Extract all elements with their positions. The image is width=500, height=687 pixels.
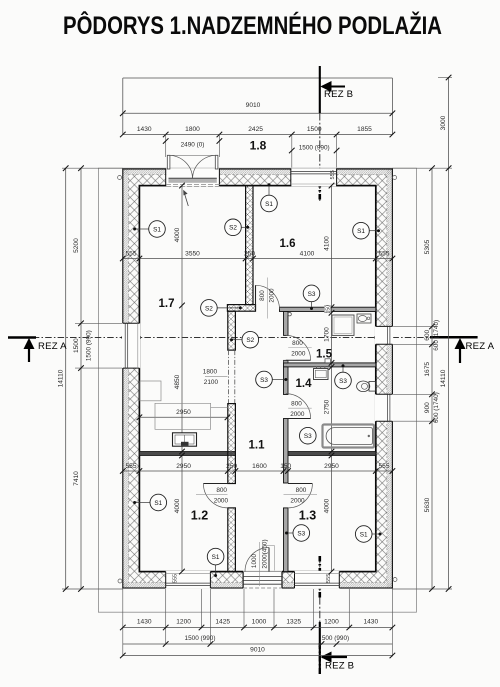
svg-text:555: 555 xyxy=(378,463,389,470)
svg-text:250: 250 xyxy=(226,463,237,470)
svg-text:5200: 5200 xyxy=(73,238,80,253)
small box above 1.5/1.4 wall xyxy=(325,359,330,363)
svg-text:S1: S1 xyxy=(153,226,161,233)
double door leaves + arcs xyxy=(167,155,170,169)
svg-text:S2: S2 xyxy=(205,305,213,312)
svg-text:S3: S3 xyxy=(297,530,305,537)
svg-text:S1: S1 xyxy=(360,531,368,538)
door to 1.4 xyxy=(286,394,312,419)
1800/2100 opening shown dash-dot xyxy=(227,350,229,404)
svg-text:4100: 4100 xyxy=(300,250,315,257)
svg-text:2750: 2750 xyxy=(323,399,330,414)
svg-text:S1: S1 xyxy=(154,500,162,507)
door 1.6 (800/2000) xyxy=(255,285,257,309)
door to 1.5 xyxy=(286,335,312,360)
hinge circle 1.5 door xyxy=(288,313,291,316)
partition 1.7/1.6 (250 thick) xyxy=(227,186,255,312)
svg-text:555: 555 xyxy=(125,463,136,470)
svg-text:1500 (990): 1500 (990) xyxy=(86,330,93,361)
svg-text:3550: 3550 xyxy=(185,250,200,257)
svg-text:555: 555 xyxy=(173,574,179,583)
svg-text:7410: 7410 xyxy=(73,471,80,486)
svg-text:REZ A: REZ A xyxy=(466,341,495,352)
S3 room 1.3 xyxy=(287,532,294,534)
overall line xyxy=(448,78,450,590)
washbasin 1.4 xyxy=(314,367,329,380)
threshold gray sill xyxy=(169,178,217,183)
svg-text:1.1: 1.1 xyxy=(249,440,266,452)
svg-text:2100: 2100 xyxy=(204,379,219,386)
svg-text:4000: 4000 xyxy=(323,498,330,513)
svg-text:REZ A: REZ A xyxy=(38,341,67,352)
svg-text:1.5: 1.5 xyxy=(316,349,333,361)
horizontal chain y=471 xyxy=(120,463,395,474)
svg-text:2950: 2950 xyxy=(176,409,191,416)
svg-text:1855: 1855 xyxy=(357,126,372,133)
svg-text:1.2: 1.2 xyxy=(191,509,208,523)
S1 room 1.6 right xyxy=(369,230,378,232)
S3 room 1.4 xyxy=(342,366,344,373)
svg-text:150: 150 xyxy=(325,305,331,314)
horizontal chain y=258.5 xyxy=(120,250,395,261)
svg-text:S2: S2 xyxy=(246,337,254,344)
svg-text:1700: 1700 xyxy=(323,327,330,342)
bottom window right (1500) xyxy=(295,571,340,589)
svg-text:1.6: 1.6 xyxy=(280,238,296,250)
sub labels: door 2490(0), window 1500(990) xyxy=(163,135,340,168)
bathtub xyxy=(323,425,375,448)
kitchen width 2950 xyxy=(137,409,231,420)
right window 600 xyxy=(375,326,393,344)
svg-text:555: 555 xyxy=(326,574,332,583)
corridor right wall (150) with door openings xyxy=(284,312,289,572)
svg-text:1425: 1425 xyxy=(215,619,230,626)
corridor left wall (250) with opening 1800 and door xyxy=(203,311,236,571)
S2 hall xyxy=(232,339,243,341)
svg-text:1430: 1430 xyxy=(137,126,152,133)
svg-text:S1: S1 xyxy=(265,201,273,208)
svg-text:4000: 4000 xyxy=(174,227,181,242)
kitchen cabinets xyxy=(140,381,228,429)
opening label xyxy=(205,375,228,377)
kitchen south wall xyxy=(139,452,235,456)
washing machine 1.5 xyxy=(332,315,354,335)
small basin 1.5 xyxy=(357,314,371,323)
tiny 150 wall labels xyxy=(324,306,330,313)
svg-text:5305: 5305 xyxy=(424,239,431,254)
stair door xyxy=(245,539,275,586)
svg-text:REZ B: REZ B xyxy=(324,89,353,100)
svg-text:4850: 4850 xyxy=(174,374,181,389)
WC 1.4 xyxy=(357,381,376,392)
REZ B marker top xyxy=(320,81,353,100)
S1 room 1.6 left xyxy=(268,185,270,195)
svg-text:2000: 2000 xyxy=(269,288,276,303)
downspout circles at corners xyxy=(118,176,122,180)
svg-text:2000: 2000 xyxy=(290,411,305,418)
stair steps xyxy=(243,576,282,578)
vertical chain x=182 xyxy=(174,183,185,575)
dashed separation line xyxy=(128,175,387,583)
door to 1.3 xyxy=(284,484,318,508)
REZ B marker bottom xyxy=(320,652,354,672)
wall inner border xyxy=(139,186,375,572)
bottom window left (1500) xyxy=(166,571,211,589)
top window (1500) xyxy=(291,168,337,186)
svg-text:5630: 5630 xyxy=(424,497,431,512)
wall 1.5/1.4 (150 thick) xyxy=(284,363,376,367)
svg-text:600 (1740): 600 (1740) xyxy=(433,392,440,423)
svg-text:2000(450): 2000(450) xyxy=(261,539,268,568)
REZ A marker right xyxy=(455,338,495,363)
svg-text:2000: 2000 xyxy=(290,498,305,505)
svg-text:S2: S2 xyxy=(229,225,237,232)
svg-text:900: 900 xyxy=(424,402,431,413)
overall 14110 line xyxy=(65,168,67,589)
top guide box xyxy=(123,78,393,135)
svg-text:2950: 2950 xyxy=(176,463,191,470)
svg-text:1325: 1325 xyxy=(286,619,301,626)
svg-text:2000: 2000 xyxy=(291,350,306,357)
segment line 5200/1500/7410 xyxy=(80,168,82,589)
svg-text:14110: 14110 xyxy=(58,369,65,387)
svg-text:PÔDORYS 1.NADZEMNÉHO PODLAŽIA: PÔDORYS 1.NADZEMNÉHO PODLAŽIA xyxy=(63,10,442,40)
dim row segments top xyxy=(120,126,395,137)
svg-text:600: 600 xyxy=(424,329,431,340)
svg-text:14110: 14110 xyxy=(440,369,447,387)
svg-text:800: 800 xyxy=(216,487,227,494)
svg-text:1.7: 1.7 xyxy=(159,298,175,310)
vertical chain x=331.5 xyxy=(323,183,334,575)
svg-text:3000: 3000 xyxy=(440,115,447,130)
segments line xyxy=(431,168,433,589)
S2 room 1.7 right xyxy=(241,226,247,228)
svg-text:1800: 1800 xyxy=(203,369,218,376)
svg-text:1600: 1600 xyxy=(252,463,267,470)
svg-text:4000: 4000 xyxy=(174,498,181,513)
S3 room 1.6 bottom xyxy=(311,302,313,309)
south wall of 1.6 (150 thick) with door opening xyxy=(256,278,376,319)
svg-text:1.8: 1.8 xyxy=(250,139,267,153)
svg-text:800: 800 xyxy=(292,340,303,347)
svg-text:1500 (990): 1500 (990) xyxy=(185,635,216,642)
REZ A marker left xyxy=(24,338,68,362)
REZ A section line (horizontal) xyxy=(8,336,478,338)
svg-text:800: 800 xyxy=(259,290,266,301)
row 1 xyxy=(123,627,393,629)
svg-text:S3: S3 xyxy=(308,291,316,298)
svg-text:1500: 1500 xyxy=(73,338,80,353)
S2 top of hall xyxy=(217,307,240,309)
svg-text:250: 250 xyxy=(244,250,255,257)
stair opening in bottom wall xyxy=(243,571,282,589)
outer insulation band (fine hatch) xyxy=(123,169,393,588)
entry arrow xyxy=(184,193,188,206)
svg-text:1800: 1800 xyxy=(185,126,200,133)
svg-text:S3: S3 xyxy=(304,433,312,440)
masonry band (crosshatch) xyxy=(128,175,387,583)
svg-text:555: 555 xyxy=(378,250,389,257)
door to 1.2 xyxy=(196,484,228,508)
svg-text:1430: 1430 xyxy=(363,619,378,626)
svg-text:2425: 2425 xyxy=(248,126,263,133)
L stub at its foot xyxy=(227,305,255,312)
svg-text:1200: 1200 xyxy=(176,619,191,626)
svg-text:500 (990): 500 (990) xyxy=(322,635,349,642)
dim line 9010 (top) xyxy=(120,102,395,116)
svg-text:150: 150 xyxy=(280,463,291,470)
S3 room 1.4 lower xyxy=(300,427,317,444)
svg-text:S1: S1 xyxy=(212,554,220,561)
svg-text:REZ B: REZ B xyxy=(325,660,354,671)
bath block south wall xyxy=(288,452,376,456)
kitchen sink xyxy=(173,433,197,446)
svg-text:1000: 1000 xyxy=(252,619,267,626)
left window (1500) xyxy=(122,323,140,368)
svg-text:9010: 9010 xyxy=(250,647,265,654)
svg-text:S3: S3 xyxy=(339,378,347,385)
row 3 xyxy=(123,655,393,657)
svg-text:800: 800 xyxy=(296,487,307,494)
svg-text:1.3: 1.3 xyxy=(299,509,316,523)
S3 hall near 1.4 xyxy=(272,379,286,381)
svg-text:9010: 9010 xyxy=(246,102,261,109)
svg-text:1675: 1675 xyxy=(424,362,431,377)
svg-text:800: 800 xyxy=(291,401,302,408)
svg-text:555: 555 xyxy=(330,170,336,179)
svg-text:2490 (0): 2490 (0) xyxy=(181,141,205,148)
row 2 xyxy=(123,643,393,645)
svg-text:S1: S1 xyxy=(357,228,365,235)
svg-text:1430: 1430 xyxy=(137,619,152,626)
svg-text:555: 555 xyxy=(125,250,136,257)
svg-text:1000: 1000 xyxy=(251,553,258,568)
S1 room 1.3 right xyxy=(372,533,380,535)
right window 900 xyxy=(375,394,393,421)
svg-text:600 (1740): 600 (1740) xyxy=(433,320,440,351)
S1 room 1.2 bottom xyxy=(215,565,217,576)
S1 room 1.7 xyxy=(135,228,149,230)
svg-text:1.4: 1.4 xyxy=(296,378,313,390)
svg-text:4100: 4100 xyxy=(323,236,330,251)
svg-text:1500 (990): 1500 (990) xyxy=(299,145,330,152)
wall outer border xyxy=(123,169,393,588)
S1 room 1.2 xyxy=(135,502,150,504)
svg-text:2000: 2000 xyxy=(214,498,229,505)
svg-text:S3: S3 xyxy=(260,377,268,384)
svg-text:1200: 1200 xyxy=(324,619,339,626)
entrance door opening (top, 1800) xyxy=(166,155,221,206)
REZ B section line (vertical) xyxy=(319,66,321,676)
plot frame xyxy=(98,168,416,612)
